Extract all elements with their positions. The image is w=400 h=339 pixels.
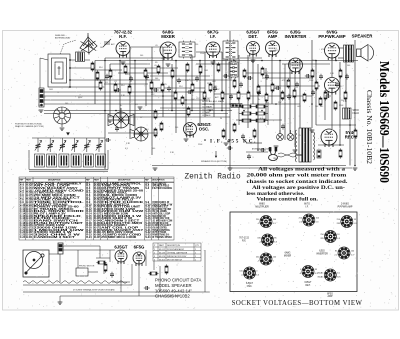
- resistor R37: [324, 90, 327, 100]
- IF transformer T1: [179, 41, 195, 59]
- svg-text:R14: R14: [99, 67, 102, 69]
- phono turntable TT1: [23, 250, 49, 277]
- capacitor C32: [239, 82, 243, 88]
- svg-text:.25: .25: [161, 58, 164, 60]
- socket X8 6J5GT oscillator: [239, 267, 260, 279]
- power transformer T5: [295, 128, 314, 162]
- svg-text:SPEAKER: SPEAKER: [352, 34, 374, 39]
- capacitor C21: [115, 88, 121, 92]
- svg-text:DESCRIPTION: DESCRIPTION: [118, 179, 131, 181]
- capacitor C30: [223, 74, 229, 78]
- svg-text:CRYSTAL CARTRIDGE: CRYSTAL CARTRIDGE: [167, 251, 188, 254]
- tube V8 6V6G power amp lower: [325, 78, 340, 95]
- tube V7 6V6G power amp upper: [325, 43, 340, 60]
- svg-text:1: 1: [154, 249, 155, 251]
- parts table rows: [20, 182, 173, 238]
- svg-text:10M: 10M: [273, 158, 277, 160]
- resistor R26: [257, 84, 260, 94]
- svg-text:500: 500: [347, 65, 350, 67]
- capacitor C33: [247, 76, 253, 80]
- resistor R42: [339, 148, 342, 158]
- parts table header: [20, 178, 165, 181]
- capacitor C23: [145, 74, 149, 80]
- svg-text:.05: .05: [154, 65, 157, 67]
- parts list table frame: [19, 177, 174, 240]
- svg-text:PART: PART: [159, 244, 165, 247]
- resistor R43: [253, 128, 256, 138]
- resistor R12: [171, 68, 174, 78]
- resistor R52 osc grid: [154, 109, 157, 119]
- antenna coil L2: [76, 52, 85, 62]
- resistor R14: [181, 95, 184, 105]
- svg-text:AVC: AVC: [251, 60, 255, 63]
- svg-text:63-605: 63-605: [159, 259, 165, 261]
- resistor R16: [191, 82, 194, 92]
- svg-text:C12: C12: [278, 136, 281, 138]
- svg-text:50: 50: [220, 118, 222, 120]
- svg-text:R9: R9: [172, 45, 174, 47]
- svg-text:R14: R14: [145, 129, 148, 131]
- resistor R8: [144, 68, 147, 78]
- svg-text:AVC: AVC: [215, 96, 219, 99]
- svg-text:All voltages measured with a: All voltages measured with a: [258, 167, 346, 172]
- svg-text:250: 250: [195, 44, 198, 46]
- ground symbols: [39, 60, 358, 170]
- capacitor C40: [311, 90, 315, 96]
- resistor R29: [271, 82, 274, 92]
- socket X6 6A8G mixer: [256, 253, 277, 265]
- phono coupling wires: [63, 246, 160, 292]
- resistor R46: [187, 106, 190, 116]
- svg-text:6.3: 6.3: [260, 118, 263, 120]
- svg-text:.01: .01: [252, 53, 255, 55]
- resistor R10: [157, 64, 160, 74]
- resistor R40: [344, 90, 347, 100]
- svg-text:2: 2: [154, 252, 155, 254]
- resistor R30: [281, 90, 284, 100]
- svg-text:Chassis No. 10B1-10B2: Chassis No. 10B1-10B2: [365, 90, 374, 164]
- speaker plug arrow: [215, 151, 217, 156]
- capacitor C36: [275, 86, 281, 90]
- resistor R27: [261, 66, 264, 76]
- tube V2 6A8G mixer: [160, 42, 176, 60]
- svg-text:22-301: 22-301: [26, 236, 33, 239]
- svg-text:R14: R14: [121, 85, 124, 87]
- resistor R25: [247, 90, 250, 100]
- svg-text:PHONO MOTOR: PHONO MOTOR: [79, 266, 95, 268]
- svg-text:R14: R14: [126, 74, 129, 76]
- svg-text:500: 500: [214, 86, 217, 88]
- svg-text:.002: .002: [273, 88, 277, 90]
- svg-text:6A8GMIXER: 6A8GMIXER: [284, 252, 292, 258]
- socket voltages panel frame: [230, 212, 357, 292]
- phono motor M1: [76, 268, 88, 276]
- svg-text:500: 500: [155, 78, 158, 80]
- svg-text:SPKRFIELD: SPKRFIELD: [353, 110, 360, 115]
- AC twisted pair: [278, 153, 302, 157]
- fuse F1: [317, 150, 321, 158]
- resistor R18: [203, 90, 206, 100]
- svg-text:1: 1: [195, 249, 196, 251]
- capacitor C39: [305, 74, 311, 78]
- capacitor C37: [287, 94, 291, 100]
- svg-text:100: 100: [222, 60, 225, 62]
- IF transformer T2: [223, 40, 238, 61]
- svg-text:R9: R9: [155, 62, 157, 64]
- svg-text:100: 100: [100, 47, 103, 49]
- push-button coils L10-L15: [29, 133, 108, 172]
- resistor R7: [128, 84, 131, 94]
- svg-text:6F5G: 6F5G: [134, 245, 145, 250]
- svg-text:.25: .25: [264, 119, 267, 121]
- tube V1 767-12.32 RF: [116, 42, 130, 58]
- capacitor C20: [105, 74, 109, 80]
- svg-text:500: 500: [65, 103, 68, 105]
- svg-text:SOCKET VOLTAGES—BOTTOM VIEW: SOCKET VOLTAGES—BOTTOM VIEW: [232, 300, 363, 307]
- socket X2 6K7G IF: [299, 214, 320, 226]
- svg-text:AVC: AVC: [111, 43, 115, 46]
- output transformer T4: [338, 45, 354, 62]
- svg-text:220K: 220K: [339, 105, 344, 107]
- socket X5 6V6G lower: [320, 231, 341, 243]
- svg-text:Models 10S669—10S690: Models 10S669—10S690: [377, 61, 392, 183]
- resistor R30 phono grid: [96, 261, 106, 264]
- capacitor C45: [227, 146, 233, 150]
- svg-text:PICKUP ARM ASSY: PICKUP ARM ASSY: [167, 248, 185, 251]
- svg-text:47 SCREW TERMINAL STRIP ON MOT: 47 SCREW TERMINAL STRIP ON MOTOR BOARD: [73, 289, 115, 292]
- svg-text:Volume control full on.: Volume control full on.: [257, 198, 319, 203]
- antenna lead-in wire: [40, 40, 105, 88]
- svg-text:DESCRIPTION: DESCRIPTION: [167, 245, 181, 247]
- resistor R2: [96, 70, 99, 80]
- svg-text:.05: .05: [228, 78, 231, 80]
- svg-text:250 MMF MICA COND: 250 MMF MICA COND: [101, 236, 136, 239]
- capacitor C50: [281, 124, 285, 130]
- svg-text:250: 250: [175, 127, 178, 129]
- svg-text:20,000 ohm per volt meter from: 20,000 ohm per volt meter from: [247, 174, 348, 179]
- capacitor C40 phono: [110, 272, 114, 278]
- resistor R31 phono plate: [148, 272, 158, 275]
- svg-text:1: 1: [195, 259, 196, 261]
- tone control network R20-R25: [239, 102, 268, 125]
- svg-text:DESCRIPTION: DESCRIPTION: [48, 179, 61, 181]
- svg-text:.002: .002: [212, 81, 216, 83]
- resistor R35: [315, 80, 318, 90]
- svg-text:.002: .002: [297, 106, 301, 108]
- svg-text:100: 100: [315, 106, 318, 108]
- svg-text:S-24: S-24: [145, 236, 151, 239]
- speaker SP1: [357, 45, 374, 62]
- phono pickup connector J1: [58, 243, 63, 254]
- resistor R41: [354, 128, 357, 138]
- resistor R4: [109, 68, 112, 78]
- svg-text:63-543: 63-543: [159, 252, 165, 254]
- push-button trimmers C10-C15: [32, 138, 105, 152]
- svg-text:220K: 220K: [207, 83, 212, 85]
- capacitor C41 phono: [144, 286, 150, 290]
- resistor R54 osc cathode: [154, 127, 157, 137]
- resistor R32: [293, 88, 296, 98]
- svg-text:10M: 10M: [49, 89, 53, 91]
- capacitor C41: [319, 74, 323, 80]
- svg-text:220K: 220K: [200, 53, 205, 55]
- resistor R34: [311, 68, 314, 78]
- band switch S1: [39, 88, 44, 107]
- svg-text:4: 4: [154, 259, 155, 261]
- svg-text:C-24: C-24: [20, 236, 26, 239]
- capacitor C25: [167, 86, 171, 92]
- resistor R38: [334, 100, 337, 110]
- phono ground: [58, 302, 63, 304]
- svg-text:500: 500: [140, 55, 143, 57]
- svg-text:.01: .01: [114, 81, 117, 83]
- tube V12 6F5G phono amp: [133, 252, 145, 266]
- svg-text:1: 1: [195, 252, 196, 254]
- svg-text:3: 3: [154, 256, 155, 258]
- capacitor C49: [247, 154, 251, 160]
- svg-text:FILTER CHOKE: FILTER CHOKE: [152, 187, 172, 190]
- svg-text:.1: .1: [191, 81, 193, 83]
- resistor R31: [287, 78, 290, 88]
- tube V11 6J5GT phono amp: [115, 250, 127, 264]
- pilot lamp PL1: [277, 130, 284, 140]
- svg-text:.25: .25: [298, 135, 301, 137]
- socket X4 767-12.32 RF: [257, 234, 278, 246]
- resistor R36: [319, 96, 322, 106]
- capacitor C51: [260, 148, 266, 152]
- svg-text:10M: 10M: [38, 105, 42, 107]
- resistor R13: [174, 90, 177, 100]
- capacitor C35: [265, 74, 269, 80]
- svg-text:1: 1: [195, 256, 196, 258]
- wire junction dots: [104, 60, 356, 167]
- socket X3 6V6G PP pwr amp: [337, 216, 358, 228]
- wiring bus vertical runs: [95, 31, 355, 169]
- resistor R3: [99, 80, 102, 90]
- socket X7 6J5G inverter: [334, 247, 355, 259]
- loop antenna L1: [48, 54, 70, 87]
- resistor R20: [217, 62, 220, 72]
- resistor R23: [237, 90, 240, 100]
- capacitor C29: [213, 86, 217, 92]
- tube V3 6K7G IF amplifier: [206, 42, 220, 58]
- tube V5 6F5G audio amp: [266, 41, 280, 57]
- svg-text:CANDOHM 3 SECT: CANDOHM 3 SECT: [34, 236, 76, 239]
- resistor R53 osc plate: [160, 121, 163, 131]
- tube V9 6J5GT oscillator: [184, 123, 197, 138]
- phono parts table: [153, 243, 201, 261]
- svg-text:1M: 1M: [207, 98, 210, 100]
- svg-text:.1: .1: [252, 157, 254, 159]
- socket X9 6J5GT det: [299, 266, 318, 278]
- svg-text:R9: R9: [135, 129, 137, 131]
- pilot lamp PL2: [287, 130, 294, 140]
- tuning capacitor C1: [80, 33, 97, 55]
- svg-text:PHONO MOTOR 115V: PHONO MOTOR 115V: [167, 256, 187, 258]
- svg-text:I.F. 455 KC.: I.F. 455 KC.: [210, 139, 257, 145]
- capacitor C42: [325, 94, 331, 98]
- shielded cable run: [23, 281, 132, 285]
- svg-text:.002: .002: [128, 84, 132, 86]
- resistor R39: [339, 68, 342, 78]
- tuning dial drum: [54, 107, 71, 127]
- capacitor C27: [187, 90, 193, 94]
- resistor R24: [243, 68, 246, 78]
- resistor R45: [222, 128, 225, 138]
- svg-text:C12: C12: [339, 86, 342, 88]
- svg-text:.002: .002: [274, 50, 278, 52]
- svg-text:400V: 400V: [207, 125, 212, 127]
- svg-text:C7: C7: [140, 117, 142, 119]
- svg-text:6J5GT: 6J5GT: [114, 245, 128, 250]
- resistor R28: [265, 92, 268, 102]
- capacitor C43: [335, 82, 339, 88]
- resistor R5: [114, 82, 117, 92]
- svg-text:C12: C12: [151, 94, 154, 96]
- svg-text:R-24: R-24: [86, 236, 92, 239]
- oscillator trimmer C4: [130, 127, 148, 141]
- resistor R32 phono: [165, 264, 168, 274]
- svg-text:.25: .25: [164, 84, 167, 86]
- svg-text:PUSH BUTTON SECTION ATREAR OF: PUSH BUTTON SECTION ATREAR OF CHASSIS (B…: [15, 123, 44, 129]
- component value labels: [38, 43, 352, 160]
- svg-text:C12: C12: [196, 98, 199, 100]
- svg-text:6A8GMIXER: 6A8GMIXER: [161, 30, 176, 39]
- speaker field coil L4: [343, 108, 352, 119]
- capacitor C26: [177, 78, 181, 84]
- svg-text:63-512: 63-512: [159, 249, 165, 251]
- svg-text:350AC: 350AC: [317, 272, 324, 275]
- resistor R11: [161, 82, 164, 92]
- svg-text:DESCRIPTION: DESCRIPTION: [152, 179, 165, 181]
- resistor R15: [186, 62, 189, 72]
- svg-text:chassis to socket contact indi: chassis to socket contact indicated.: [247, 180, 349, 185]
- svg-text:SPEAKER PLUG (BOTTOM): SPEAKER PLUG (BOTTOM): [201, 160, 227, 163]
- svg-text:S-3: S-3: [145, 187, 150, 190]
- capacitor C46: [241, 134, 245, 140]
- capacitor C28: [195, 76, 199, 82]
- resistor R33 phono load: [104, 262, 107, 272]
- svg-text:.05: .05: [155, 45, 158, 47]
- svg-text:.1: .1: [57, 92, 59, 94]
- resistor R22: [233, 78, 236, 88]
- svg-text:350AC: 350AC: [317, 276, 324, 279]
- svg-text:6F5GAMP: 6F5GAMP: [267, 30, 278, 39]
- svg-text:.1: .1: [260, 81, 262, 83]
- IF transformer T3: [229, 61, 238, 79]
- svg-text:less marked otherwise.: less marked otherwise.: [247, 192, 306, 197]
- resistor R6: [124, 64, 127, 74]
- phono table text: [154, 244, 200, 261]
- resistor R1: [91, 61, 94, 71]
- svg-text:Zenith Radio: Zenith Radio: [185, 174, 241, 182]
- svg-text:6.3: 6.3: [125, 148, 128, 150]
- svg-text:400V: 400V: [190, 134, 195, 136]
- loop antenna junction dots: [69, 59, 71, 88]
- capacitor C22: [129, 76, 133, 82]
- capacitor C24: [153, 88, 159, 92]
- resistor R9: [150, 80, 153, 90]
- svg-text:IF TRANS 455KC: IF TRANS 455KC: [152, 236, 172, 239]
- svg-text:100: 100: [152, 148, 155, 150]
- socket X1 6A8G multiplier: [256, 216, 277, 228]
- capacitor C31: [229, 94, 233, 100]
- capacitor C34: [257, 90, 261, 96]
- svg-text:63-407: 63-407: [94, 236, 101, 239]
- tube V6 6J5G phase inverter: [289, 58, 303, 74]
- padder capacitor C3: [108, 108, 134, 128]
- svg-text:250: 250: [349, 49, 352, 51]
- socket X10 5Y4G rectifier: [317, 269, 341, 281]
- svg-text:220K: 220K: [198, 144, 203, 146]
- capacitor C38: [295, 82, 299, 88]
- resistor R44: [233, 122, 236, 132]
- wiring bus horizontal runs: [44, 47, 358, 168]
- svg-text:.01: .01: [105, 82, 108, 84]
- AC line plug P1: [269, 148, 278, 161]
- svg-text:6F5GAMP: 6F5GAMP: [327, 293, 333, 298]
- trimmer capacitor C2: [103, 39, 111, 47]
- capacitor C47: [115, 126, 119, 132]
- resistor R19: [209, 82, 212, 92]
- resistor R21: [221, 90, 224, 100]
- svg-text:.01: .01: [135, 104, 138, 106]
- svg-text:All voltages are positive D.C.: All voltages are positive D.C. un-: [252, 186, 345, 191]
- candohm resistor block R40: [231, 104, 242, 108]
- resistor R33: [303, 92, 306, 102]
- svg-text:63-574: 63-574: [159, 256, 165, 258]
- svg-text:220K: 220K: [309, 80, 314, 82]
- svg-text:C12: C12: [42, 97, 45, 99]
- tube V4 6J5GT detector: [247, 42, 260, 57]
- svg-text:R14: R14: [99, 82, 102, 84]
- capacitor C48: [105, 138, 111, 142]
- phono wiring: [23, 250, 210, 302]
- tube V10 5Y4G rectifier: [321, 129, 337, 147]
- svg-text:10M: 10M: [204, 70, 208, 72]
- svg-text:R14: R14: [179, 86, 182, 88]
- svg-text:MOTOR SWITCH: MOTOR SWITCH: [167, 259, 183, 261]
- capacitor C44: [345, 74, 349, 80]
- resistor R17: [199, 64, 202, 74]
